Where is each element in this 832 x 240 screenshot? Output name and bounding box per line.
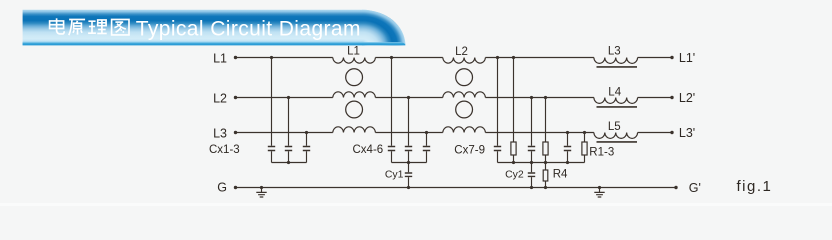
svg-text:L3: L3 (213, 126, 227, 140)
junction R3/L3 (583, 131, 586, 134)
title banner bottom strip (23, 42, 406, 45)
junction Cx7/L1 (496, 56, 499, 59)
junction Cx6/L3 (425, 131, 428, 134)
wire bar group 2 (392, 162, 427, 164)
node G input (234, 186, 237, 189)
wire L2 line mid (375, 97, 442, 99)
junction Cy2/G (530, 186, 533, 189)
capacitor Cx7 (497, 58, 499, 163)
junction bar3/R1 (512, 161, 515, 164)
wire L2 line left (236, 97, 333, 99)
wire G line (236, 187, 677, 189)
junction R1/L1 (512, 56, 515, 59)
svg-text:R4: R4 (553, 169, 568, 181)
node L3 input (234, 131, 237, 134)
ground symbol left (261, 188, 263, 193)
svg-text:L2: L2 (213, 91, 227, 105)
banner hanzi 理 (88, 20, 107, 34)
wire L1 line mid (375, 57, 442, 59)
svg-text:L1': L1' (679, 51, 695, 65)
wire L2 to output (638, 97, 672, 99)
choke L1 winding 3 (on line L3, arcs above) (333, 127, 376, 133)
title banner corner (362, 10, 405, 45)
junction R2/L2 (544, 96, 547, 99)
choke L1 core circle bottom (346, 101, 363, 118)
svg-text:L1: L1 (347, 45, 360, 57)
svg-text:Cx4-6: Cx4-6 (353, 144, 384, 156)
choke L1 core circle top (346, 69, 363, 86)
svg-text:Cx1-3: Cx1-3 (209, 144, 240, 156)
junction ground-right/G (598, 186, 601, 189)
resistor R3 (584, 133, 586, 163)
svg-text:G: G (217, 180, 227, 194)
node L3' output (670, 131, 673, 134)
svg-text:L5: L5 (608, 121, 621, 133)
svg-text:Cy2: Cy2 (505, 168, 524, 180)
inductor L3 core bar (597, 66, 638, 68)
junction Cx8/L2 (530, 96, 533, 99)
junction Cx9/L3 (566, 131, 569, 134)
junction bar2/Cy1 (407, 161, 410, 164)
junction bar3/Cy2 (530, 161, 533, 164)
junction Cx4/L1 (390, 56, 393, 59)
capacitor Cx2 (288, 98, 290, 163)
node L2' output (670, 96, 673, 99)
resistor R4 (545, 163, 547, 188)
resistor R1 (513, 58, 515, 163)
inductor L4 (arcs below) (594, 98, 638, 104)
svg-text:L2': L2' (679, 91, 695, 105)
node L1 input (234, 56, 237, 59)
capacitor Cx8 (531, 98, 533, 163)
junction Cx2/L2 (287, 96, 290, 99)
capacitor Cx6 (426, 133, 428, 163)
inductor L5 (arcs below) (594, 133, 638, 139)
svg-text:G': G' (689, 181, 701, 195)
title banner (23, 10, 406, 45)
node L1' output (670, 56, 673, 59)
wire bar group 3 (498, 162, 585, 164)
capacitor Cx5 (408, 98, 410, 163)
junction ground-left/G (260, 186, 263, 189)
wire L1 line left (236, 57, 333, 59)
capacitor Cx1 (271, 58, 273, 163)
banner hanzi 电 (50, 18, 65, 34)
svg-text:fig.1: fig.1 (737, 178, 773, 195)
choke L2 core circle top (456, 69, 473, 86)
svg-text:L3': L3' (679, 126, 695, 140)
svg-text:L3: L3 (608, 45, 621, 57)
choke L2 winding 1 (on line L1, arcs below) (443, 58, 486, 64)
junction Cx1/L1 (270, 56, 273, 59)
svg-text:L4: L4 (608, 86, 621, 98)
svg-text:R1-3: R1-3 (589, 146, 614, 158)
junction Cx5/L2 (407, 96, 410, 99)
choke L2 winding 2 (on line L2, arcs above) (443, 92, 486, 98)
choke L1 winding 1 (on line L1, arcs below) (333, 58, 376, 64)
junction Cy1/G (407, 186, 410, 189)
wire L3 line right (485, 132, 594, 134)
banner hanzi 原 (69, 20, 85, 36)
wire L1 line right (485, 57, 594, 59)
capacitor Cx4 (391, 58, 393, 163)
svg-text:L2: L2 (455, 46, 468, 58)
choke L2 winding 3 (on line L3, arcs above) (443, 127, 486, 133)
banner hanzi 图 (112, 20, 129, 35)
choke L1 winding 2 (on line L2, arcs above) (333, 92, 376, 98)
capacitor Cy1 (408, 163, 410, 188)
resistor R2 (545, 98, 547, 163)
inductor L5 core bar (597, 141, 638, 143)
capacitor Cx9 (567, 133, 569, 163)
wire L3 to output (638, 132, 672, 134)
capacitor Cx3 (306, 133, 308, 163)
junction bar3/Cx9 (566, 161, 569, 164)
junction R4/G (544, 186, 547, 189)
ground symbol right (599, 188, 601, 193)
node G' output (674, 186, 677, 189)
svg-text:L1: L1 (213, 51, 227, 65)
svg-text:Cx7-9: Cx7-9 (454, 144, 485, 156)
svg-text:Typical Circuit Diagram: Typical Circuit Diagram (136, 18, 361, 41)
wire L2 line right (485, 97, 594, 99)
junction Cx3/L3 (305, 131, 308, 134)
node L2 input (234, 96, 237, 99)
choke L2 core circle bottom (456, 101, 473, 118)
junction bar1/Cx2 (287, 161, 290, 164)
inductor L4 core bar (597, 106, 638, 108)
wire L3 line left (236, 132, 333, 134)
inductor L3 (arcs below) (594, 58, 638, 64)
svg-text:Cy1: Cy1 (385, 168, 404, 180)
wire L3 line mid (375, 132, 442, 134)
junction bar3/R4 (544, 161, 547, 164)
wire L1 to output (638, 57, 672, 59)
capacitor Cy2 (531, 163, 533, 188)
wire bar group 1 (272, 162, 307, 164)
